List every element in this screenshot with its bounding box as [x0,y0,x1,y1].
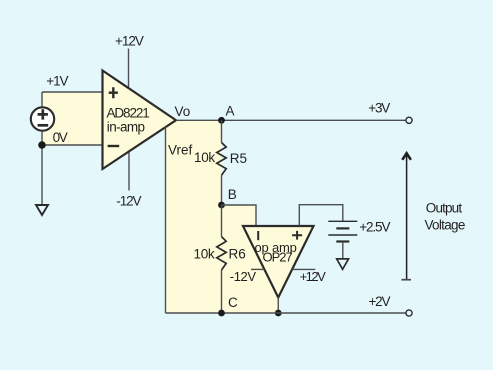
svg-text:OP27: OP27 [263,250,293,265]
wire R5 to B [221,175,223,205]
svg-text:-12V: -12V [230,269,257,284]
svg-text:0V: 0V [53,130,68,145]
terminal +2V [406,310,412,316]
wire bottom rail +2V [166,312,406,314]
node op-amp output [275,310,282,317]
node junction source [38,141,46,149]
wire battery to ground [342,242,344,259]
svg-text:+2.5V: +2.5V [359,220,390,235]
ground [36,205,48,215]
svg-text:+12V: +12V [115,34,144,49]
node C [218,310,225,317]
output voltage arrow [401,153,411,280]
resistor R5 [217,143,226,176]
svg-text:+1V: +1V [46,73,68,88]
svg-text:10k: 10k [194,247,215,262]
svg-text:B: B [228,187,237,202]
svg-text:R5: R5 [230,151,247,166]
svg-text:Voltage: Voltage [425,218,465,233]
svg-text:Vref: Vref [168,143,193,158]
voltage source V1 [31,107,54,130]
wire A to R5 [221,120,223,142]
wire B to op-amp inverting input [222,205,257,226]
wire +12V supply [128,49,130,89]
svg-text:C: C [228,295,238,310]
svg-text:10k: 10k [194,150,215,165]
battery +2.5V [328,221,357,241]
ground battery [337,259,349,269]
wire op-amp noninverting input to battery [299,205,343,226]
terminal +3V [406,117,412,123]
node B [218,202,225,209]
shaded region feedback loop [166,120,314,313]
svg-text:A: A [226,104,235,119]
wire -12V supply [128,151,130,191]
svg-text:+3V: +3V [368,101,390,116]
pin V+ op-amp [292,268,315,270]
wire op-amp output to node C rail [277,298,279,314]
shaded region input loop [42,92,103,145]
wire B to R6 [221,205,223,237]
svg-text:Output: Output [426,201,463,216]
svg-text:Vo: Vo [175,104,191,119]
svg-text:-12V: -12V [116,194,141,209]
svg-text:+12V: +12V [300,269,327,284]
in-amp U1 AD8221 [103,71,177,170]
wire 0V [42,131,103,205]
pin V- op-amp [251,268,264,270]
op-amp U2 OP27 [243,226,314,298]
svg-text:R6: R6 [229,247,246,262]
resistor R6 [217,237,226,270]
wire Vref [165,126,167,313]
svg-text:+2V: +2V [369,294,391,309]
wire +1V top [42,92,103,108]
node A [218,117,225,124]
svg-text:in-amp: in-amp [107,119,145,134]
wire R6 to C [221,270,223,313]
wire Vo output [176,119,406,121]
